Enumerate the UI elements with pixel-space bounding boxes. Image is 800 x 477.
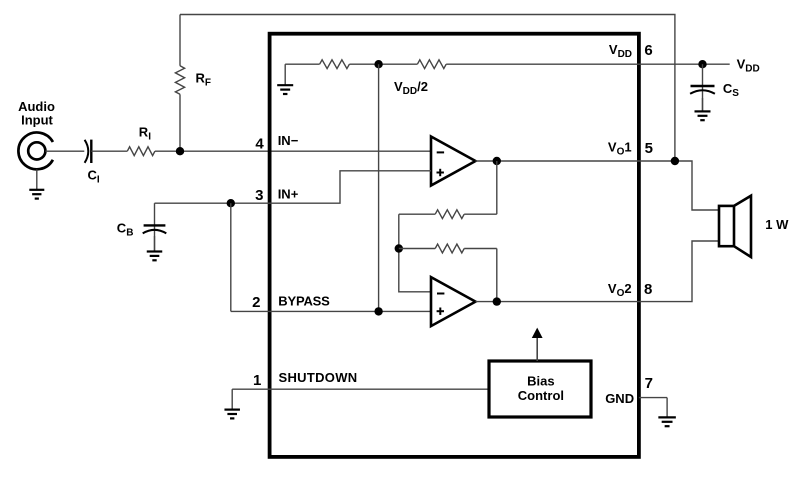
label VDD supply xyxy=(737,56,760,74)
label RF xyxy=(196,71,212,89)
wire divider mid xyxy=(349,63,417,65)
wire input to CI xyxy=(45,150,84,152)
ground (pin 7) xyxy=(658,398,676,427)
svg-text:VO1: VO1 xyxy=(608,140,632,158)
svg-text:IN+: IN+ xyxy=(278,186,299,201)
wire pin 7 to ground xyxy=(639,397,667,399)
wire feedback loop top (R_F top to pin 5 junction) xyxy=(180,15,675,162)
capacitor CB xyxy=(143,203,167,251)
wire ground to divider resistor xyxy=(285,63,319,65)
svg-text:VDD/2: VDD/2 xyxy=(394,79,428,97)
label Audio Input xyxy=(18,99,55,128)
svg-text:7: 7 xyxy=(645,375,653,392)
wire VDD line pin 6 xyxy=(446,63,730,65)
node junction VDD/CS xyxy=(698,60,706,68)
connector J1 audio input jack xyxy=(18,133,53,170)
svg-text:GND: GND xyxy=(605,391,634,406)
capacitor CS xyxy=(690,64,715,111)
block bias control xyxy=(489,361,591,417)
node junction A1 output feedback xyxy=(493,157,501,165)
svg-text:Input: Input xyxy=(21,113,53,128)
label CB xyxy=(117,221,134,239)
ground (internal divider) xyxy=(277,64,293,94)
pin 7 number xyxy=(645,375,653,392)
resistor internal divider right xyxy=(417,60,446,69)
svg-text:4: 4 xyxy=(255,135,264,152)
pin 4 number xyxy=(255,135,264,152)
svg-text:RI: RI xyxy=(139,125,151,143)
op-amp A2 xyxy=(431,277,476,326)
resistor internal feedback top xyxy=(399,210,497,219)
pin 2 number xyxy=(252,294,260,311)
svg-text:Bias: Bias xyxy=(527,374,554,389)
label RI xyxy=(139,125,151,143)
resistor RI xyxy=(127,147,155,156)
svg-text:1: 1 xyxy=(253,372,261,389)
svg-text:RF: RF xyxy=(196,71,212,89)
ground (CS) xyxy=(695,98,711,120)
svg-text:5: 5 xyxy=(645,140,653,157)
label VO1 pin name xyxy=(608,140,632,158)
IC U1 package outline xyxy=(270,34,639,457)
svg-text:8: 8 xyxy=(644,281,652,298)
pin 1 number xyxy=(253,372,261,389)
svg-text:3: 3 xyxy=(255,187,263,204)
label IN+ xyxy=(278,186,299,201)
label SHUTDOWN xyxy=(279,370,358,385)
svg-text:6: 6 xyxy=(644,42,652,59)
wire IN+ line (pin 3 to op-amp A1 non-inverting input) xyxy=(155,171,432,203)
label GND pin name xyxy=(605,391,634,406)
node junction pin5/feedback loop xyxy=(671,157,679,165)
pin 3 number xyxy=(255,187,263,204)
wire CI to RI xyxy=(91,150,127,152)
svg-text:CI: CI xyxy=(88,168,100,186)
wire bypass branch vertical xyxy=(230,203,232,311)
wire IN- line (RI to op-amp A1 inverting input) xyxy=(155,150,431,152)
wire feedback vertical (A1 out to R int top) xyxy=(496,161,498,214)
svg-text:2: 2 xyxy=(252,294,260,311)
capacitor CI xyxy=(85,140,92,163)
svg-text:BYPASS: BYPASS xyxy=(278,293,330,308)
arrow bias control output xyxy=(532,328,543,361)
node junction A (A2 inverting input) xyxy=(395,244,403,252)
svg-text:IN−: IN− xyxy=(278,133,299,148)
label CS xyxy=(723,81,739,99)
wire VO1 output line (A1 to speaker top) xyxy=(476,161,720,210)
node junction A2 output feedback xyxy=(493,297,501,305)
resistor RF xyxy=(175,15,184,152)
svg-text:VO2: VO2 xyxy=(608,281,632,299)
node junction RF/RI/IN- xyxy=(176,147,184,155)
resistor internal feedback bottom xyxy=(399,244,497,253)
node junction CB/IN+/bypass branch xyxy=(227,199,235,207)
label CI xyxy=(88,168,100,186)
label VO2 pin name xyxy=(608,281,632,299)
svg-text:CB: CB xyxy=(117,221,134,239)
ground (CB) xyxy=(147,236,163,260)
pin 5 number xyxy=(645,140,653,157)
ground (shutdown input) xyxy=(224,389,240,418)
ground (audio input) xyxy=(29,170,44,199)
pin 6 number xyxy=(644,42,652,59)
node VDD/2 junction xyxy=(374,60,382,68)
wire node A vertical xyxy=(399,214,431,292)
svg-text:CS: CS xyxy=(723,81,739,99)
svg-text:Control: Control xyxy=(518,388,564,403)
label VDD/2 xyxy=(394,79,428,97)
label IN- xyxy=(278,133,299,148)
svg-text:VDD: VDD xyxy=(609,42,632,60)
speaker LS1 xyxy=(719,196,751,257)
svg-text:SHUTDOWN: SHUTDOWN xyxy=(279,370,358,385)
wire SHUTDOWN line (pin 1 to bias control) xyxy=(232,388,489,390)
op-amp A1 xyxy=(431,137,476,186)
label VDD pin name xyxy=(609,42,632,60)
resistor internal divider left xyxy=(320,60,350,69)
label 1 W xyxy=(765,217,789,232)
svg-text:1 W: 1 W xyxy=(765,217,789,232)
svg-text:VDD: VDD xyxy=(737,56,760,74)
pin 8 number xyxy=(644,281,652,298)
wire VO2 output line (A2 to speaker bottom) xyxy=(476,241,720,302)
label BYPASS xyxy=(278,293,330,308)
node junction bypass/VDD2 xyxy=(374,307,382,315)
wire BYPASS line (pin 2 to op-amp A2 non-inverting input) xyxy=(231,310,431,312)
wire VDD/2 vertical to bypass xyxy=(378,64,380,311)
wire feedback bottom vertical (to A2 out) xyxy=(496,249,498,302)
label Bias Control xyxy=(518,374,564,404)
